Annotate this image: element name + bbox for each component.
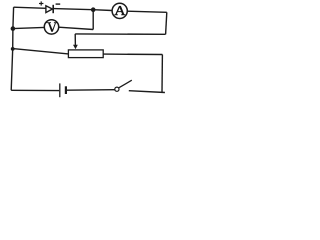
wire slider to right vertical [75, 33, 165, 35]
right upper vertical wire [166, 12, 167, 34]
wire top-left to diode [14, 7, 46, 8]
node junction dot rheostat-row [11, 47, 15, 51]
node junction dot A (top) [91, 7, 96, 12]
background [0, 0, 171, 101]
label + [39, 1, 43, 5]
diode D1 triangle [46, 6, 53, 13]
wire V-row left [13, 27, 44, 28]
ammeter A1 label [114, 6, 125, 15]
wire battery to switch [67, 89, 115, 92]
rheostat R1 body [68, 50, 103, 58]
ammeter A1 circle [112, 3, 127, 18]
wire riser up to node A [92, 10, 94, 30]
rheostat slider arrowhead [73, 45, 78, 50]
battery B1 long plate [59, 83, 61, 97]
right lower vertical wire [161, 55, 163, 93]
wire V to riser [59, 27, 93, 29]
wire rheostat to right lower vertical [103, 53, 162, 55]
diode D1 cathode bar [52, 5, 54, 13]
bottom wire left to battery [11, 89, 59, 91]
wire node A to ammeter [93, 9, 112, 12]
switch S1 arm [119, 80, 132, 88]
label - [56, 3, 61, 5]
battery B1 short plate [65, 86, 67, 94]
voltmeter V1 circle [44, 20, 58, 34]
rheostat slider arrow shaft [74, 34, 76, 46]
node junction dot V-row [11, 26, 16, 31]
wire left vertical to rheostat [13, 49, 69, 54]
wire ammeter to top-right corner [127, 11, 166, 12]
switch S1 hinge circle [115, 87, 119, 91]
left vertical wire [11, 7, 13, 90]
wire diode to node A [54, 9, 93, 10]
bottom wire right of switch [129, 91, 165, 93]
voltmeter V1 label [47, 22, 57, 32]
